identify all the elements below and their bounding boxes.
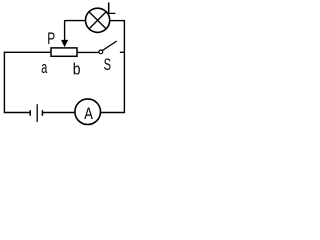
wire lamp to right rail <box>109 20 124 22</box>
wire right rail <box>123 20 125 113</box>
wire battery to ammeter <box>43 112 76 114</box>
battery plate short left <box>29 110 31 116</box>
lamp L (circle with X) <box>86 8 110 32</box>
wire middle-left to potentiometer <box>4 51 51 53</box>
svg-text:P: P <box>47 30 55 49</box>
wire switch to right rail <box>120 51 125 53</box>
svg-text:b: b <box>73 60 81 79</box>
switch S blade <box>102 41 117 51</box>
potentiometer wiper arrowhead <box>61 40 68 47</box>
svg-text:L: L <box>107 0 116 18</box>
wire ammeter to right rail <box>100 112 124 114</box>
svg-text:S: S <box>104 56 111 75</box>
wire left rail <box>3 52 5 114</box>
wire wiper vertical drop <box>64 20 66 41</box>
wire potentiometer to switch pivot <box>77 51 99 53</box>
switch S pivot circle <box>99 50 103 54</box>
wire bottom-left to battery <box>4 112 29 114</box>
wire top from wiper junction to lamp <box>65 20 86 22</box>
potentiometer P (resistor box) <box>51 48 77 56</box>
battery plate long middle <box>36 104 38 122</box>
ammeter A (circle) <box>75 99 101 125</box>
svg-text:a: a <box>41 59 47 78</box>
battery plate short right <box>41 110 43 116</box>
svg-text:A: A <box>84 105 93 124</box>
